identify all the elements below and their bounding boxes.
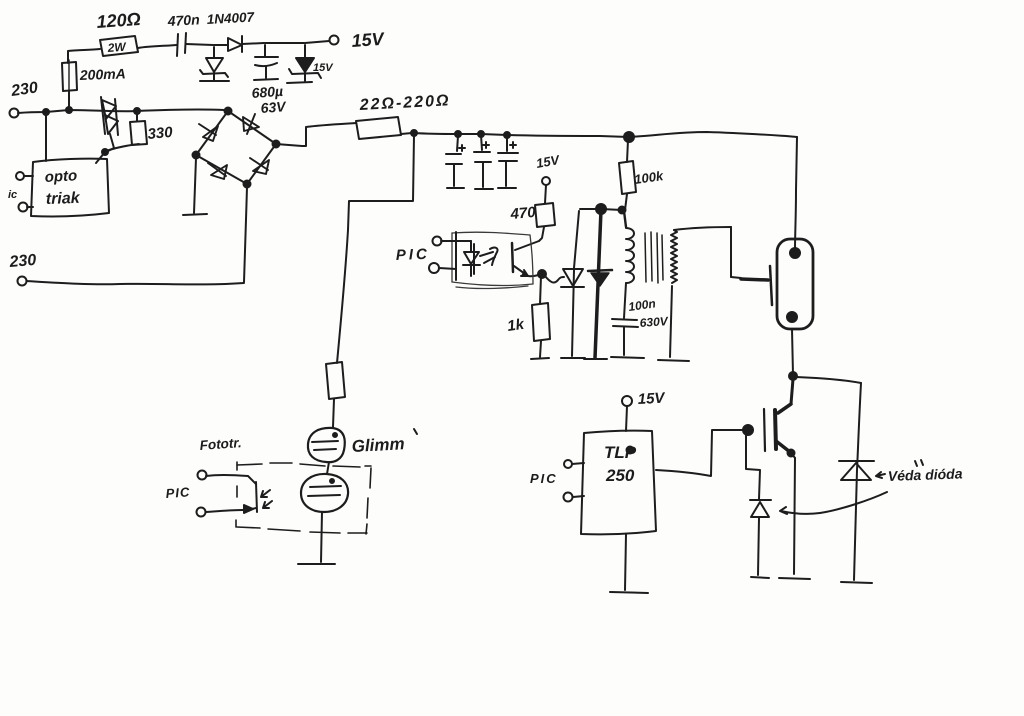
svg-text:1k: 1k [506,316,526,335]
svg-text:opto: opto [44,167,77,186]
svg-text:Véda dióda: Véda dióda [888,465,963,484]
svg-text:230: 230 [8,252,37,271]
svg-text:470n: 470n [166,11,200,29]
svg-text:250: 250 [605,466,635,485]
svg-text:15V: 15V [637,390,667,408]
svg-text:200mA: 200mA [79,65,126,83]
svg-text:1N4007: 1N4007 [206,9,255,27]
svg-text:triak: triak [46,190,81,208]
svg-text:ic: ic [8,189,17,201]
svg-text:15V: 15V [351,29,386,51]
svg-text:TLP: TLP [604,443,637,462]
svg-text:15V: 15V [313,62,334,74]
svg-text:2W: 2W [106,40,128,55]
svg-text:PIC: PIC [530,471,558,486]
svg-text:470: 470 [509,204,537,223]
svg-text:PIC: PIC [396,246,431,264]
svg-text:100k: 100k [633,168,664,187]
svg-text:330: 330 [147,124,174,143]
svg-text:120Ω: 120Ω [96,9,141,32]
svg-text:Fototr.: Fototr. [199,435,242,453]
svg-text:PIC: PIC [165,484,191,501]
svg-text:230: 230 [9,79,39,100]
svg-text:63V: 63V [260,98,288,116]
svg-text:Glimm: Glimm [351,434,405,456]
svg-text:22Ω-220Ω: 22Ω-220Ω [358,92,451,114]
svg-text:630V: 630V [639,314,669,330]
svg-text:15V: 15V [535,152,562,171]
svg-text:100n: 100n [627,296,656,314]
